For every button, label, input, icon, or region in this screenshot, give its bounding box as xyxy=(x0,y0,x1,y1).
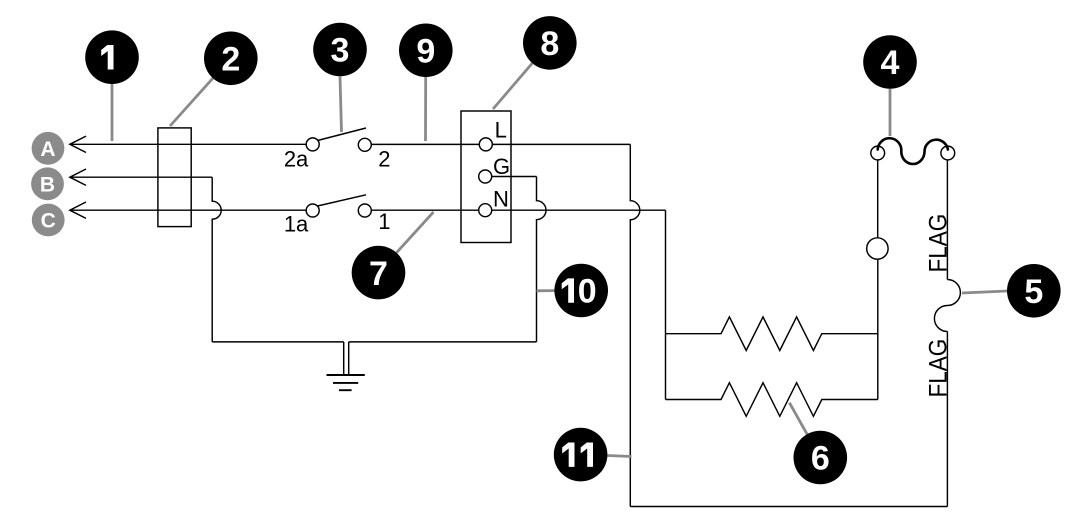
callout 2 xyxy=(204,32,258,86)
arrow A xyxy=(70,136,86,152)
svg-text:B: B xyxy=(40,173,55,196)
callout 10 xyxy=(554,264,608,318)
callout 6 xyxy=(794,431,848,485)
svg-text:N: N xyxy=(493,186,509,211)
arrow C xyxy=(70,202,86,218)
label L xyxy=(495,118,507,143)
label G xyxy=(493,154,510,179)
switch contact 1 xyxy=(358,204,371,217)
callout 3 xyxy=(313,23,367,77)
leader line callout 8 xyxy=(493,63,532,109)
callout 7 xyxy=(352,246,406,300)
callout 5 xyxy=(1007,264,1061,318)
bottom wire of earth loop right segment xyxy=(349,341,537,343)
svg-text:8: 8 xyxy=(540,25,559,63)
svg-text:6: 6 xyxy=(811,440,830,478)
switch contact 2a xyxy=(306,138,319,151)
callout 1 xyxy=(85,30,139,84)
callout 9 xyxy=(399,24,453,78)
svg-text:3: 3 xyxy=(331,32,350,70)
resistor upper heating element xyxy=(666,317,878,351)
switch contact 1a xyxy=(306,204,319,217)
phase terminal C xyxy=(32,204,65,237)
flag terminal symbol component 5 xyxy=(934,280,960,332)
wire G to vertical drop xyxy=(492,176,537,178)
wire N to resistor box xyxy=(492,209,666,211)
FLAG label upper xyxy=(924,214,952,273)
leader line callout 5 xyxy=(962,291,1007,293)
switch blade 2 xyxy=(318,128,367,141)
svg-text:2: 2 xyxy=(378,147,390,172)
right riser wire upper segment xyxy=(946,160,948,280)
switch blade 1 xyxy=(318,195,367,206)
terminal circle on left leg xyxy=(867,238,888,259)
label 2 xyxy=(378,147,390,172)
wire from contact 1 to terminal N xyxy=(371,209,478,211)
terminal G xyxy=(479,170,492,183)
svg-text:9: 9 xyxy=(416,33,435,71)
callout 8 xyxy=(523,16,577,70)
wire vertical from B down with hop over C wire xyxy=(212,177,221,342)
wire from contact 2 to terminal L xyxy=(371,143,479,145)
thermal cutout left contact xyxy=(871,146,885,160)
wire L to vertical drop xyxy=(492,143,630,145)
svg-text:2a: 2a xyxy=(284,147,309,172)
wire C xyxy=(70,209,306,211)
label 1 xyxy=(378,209,390,234)
arrow B xyxy=(70,169,86,185)
leader line callout 10 xyxy=(537,289,555,292)
svg-text:A: A xyxy=(40,138,55,161)
bottom main wire xyxy=(630,506,947,508)
left leg from thermal cutout xyxy=(877,160,879,238)
terminal N xyxy=(479,204,492,217)
wire vertical from L down with hop over N wire xyxy=(630,144,640,506)
svg-text:FLAG: FLAG xyxy=(924,214,952,273)
svg-text:C: C xyxy=(41,210,56,233)
wire vertical from G down with hop over N wire xyxy=(537,177,547,342)
callout 4 xyxy=(863,35,917,89)
svg-text:L: L xyxy=(495,118,507,143)
svg-text:1a: 1a xyxy=(284,212,309,237)
thermal cutout right contact xyxy=(941,146,955,160)
phase terminal A xyxy=(32,132,65,165)
FLAG label lower xyxy=(924,339,952,398)
switch contact 2 xyxy=(358,138,371,151)
leader line callout 4 xyxy=(889,89,892,136)
callout 11 xyxy=(554,428,608,482)
svg-text:1: 1 xyxy=(378,209,390,234)
bottom wire of earth loop left segment xyxy=(212,341,344,343)
svg-text:7: 7 xyxy=(369,255,388,293)
label 1a xyxy=(284,212,309,237)
terminal L xyxy=(479,138,492,151)
wire A xyxy=(70,143,306,145)
leader line callout 11 xyxy=(607,456,631,457)
left rail of resistor box xyxy=(665,210,667,399)
leader line callout 9 xyxy=(424,77,427,141)
component 2 interference filter rectangle xyxy=(158,128,191,227)
svg-text:2: 2 xyxy=(221,41,240,79)
leader line callout 7 xyxy=(397,212,434,253)
resistor lower heating element component 6 xyxy=(666,383,878,417)
ground stem xyxy=(344,342,349,375)
svg-text:5: 5 xyxy=(1024,273,1043,311)
leader line callout 3 xyxy=(340,76,342,132)
svg-text:FLAG: FLAG xyxy=(924,339,952,398)
svg-text:G: G xyxy=(493,154,510,179)
svg-text:4: 4 xyxy=(881,44,900,82)
svg-text:0: 0 xyxy=(578,273,597,311)
right riser wire lower segment xyxy=(946,332,948,507)
leader line callout 6 xyxy=(789,403,807,435)
thermal cutout bimetal wave component 4 xyxy=(878,138,948,164)
leader line callout 2 xyxy=(170,78,213,126)
wire B xyxy=(70,176,212,178)
leader line callout 1 xyxy=(111,84,114,141)
ground symbol xyxy=(327,375,365,390)
right rail of resistor box xyxy=(877,259,879,399)
terminal block component 8 xyxy=(461,111,511,243)
phase terminal B xyxy=(31,167,64,200)
label N xyxy=(493,186,509,211)
label 2a xyxy=(284,147,309,172)
